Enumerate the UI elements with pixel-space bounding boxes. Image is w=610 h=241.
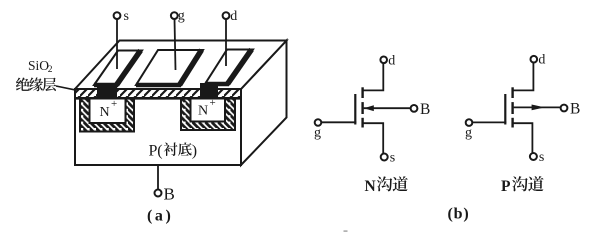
N+ region 2 (drain well, hatched border) bbox=[181, 99, 235, 131]
transistor P-channel MOSFET: channel bar (source segment) bbox=[511, 118, 513, 128]
svg-text:s: s bbox=[124, 9, 129, 24]
svg-text:d: d bbox=[538, 53, 545, 68]
svg-text:B: B bbox=[164, 185, 175, 204]
terminal g bbox=[171, 12, 178, 19]
transistor P-channel MOSFET: gate bar bbox=[504, 94, 506, 125]
svg-text:P: P bbox=[501, 178, 511, 195]
svg-text:N: N bbox=[100, 105, 110, 120]
transistor P-channel MOSFET: drain terminal circle bbox=[531, 56, 538, 63]
wire d stem bbox=[225, 19, 227, 66]
transistor N-channel MOSFET: body wire bbox=[364, 107, 411, 109]
substrate box front face bbox=[75, 89, 241, 165]
transistor N-channel MOSFET: gate terminal circle bbox=[315, 119, 322, 126]
transistor N-channel MOSFET: channel bar (drain segment) bbox=[361, 87, 363, 98]
terminal d bbox=[223, 12, 230, 19]
svg-text:(b): (b) bbox=[448, 206, 470, 223]
N+ region 1 (source well, hatched border) bbox=[80, 99, 134, 132]
transistor N-channel MOSFET: gate wire bbox=[321, 121, 356, 123]
faint scan speck bbox=[344, 230, 348, 232]
svg-text:(: ( bbox=[157, 142, 162, 159]
via under d electrode bbox=[200, 83, 218, 99]
label 绝缘层 (insulating layer) bbox=[16, 77, 30, 90]
svg-text:+: + bbox=[111, 98, 117, 110]
svg-text:(a): (a) bbox=[147, 208, 173, 225]
terminal B (substrate) bbox=[155, 190, 162, 197]
transistor P-channel MOSFET: drain wire bbox=[513, 63, 534, 91]
svg-text:P: P bbox=[149, 142, 158, 159]
transistor N-channel MOSFET: drain terminal circle bbox=[380, 57, 387, 64]
transistor N-channel MOSFET: body terminal circle B bbox=[411, 105, 418, 112]
transistor P-channel MOSFET: channel bar (drain segment) bbox=[511, 87, 513, 98]
svg-text:g: g bbox=[178, 9, 185, 24]
transistor N-channel MOSFET: gate bar bbox=[354, 94, 356, 125]
wire B stem (substrate contact) bbox=[157, 165, 159, 190]
transistor N-channel MOSFET: source terminal circle bbox=[381, 154, 388, 161]
svg-text:B: B bbox=[570, 101, 580, 118]
transistor P-channel MOSFET: source terminal circle bbox=[530, 153, 537, 160]
via under s electrode bbox=[97, 84, 117, 99]
transistor N-channel MOSFET: body arrow (pointing in, N-channel) bbox=[364, 105, 374, 111]
wire s stem bbox=[116, 19, 118, 69]
svg-text:2: 2 bbox=[48, 65, 53, 75]
svg-text:s: s bbox=[390, 151, 395, 166]
svg-text:N: N bbox=[198, 104, 208, 119]
transistor N-channel MOSFET: channel bar (body segment) bbox=[361, 102, 363, 114]
svg-text:N: N bbox=[365, 178, 376, 195]
transistor P-channel MOSFET: body terminal circle B bbox=[561, 105, 568, 112]
transistor N-channel MOSFET: source wire bbox=[363, 123, 384, 153]
svg-text:SiO: SiO bbox=[28, 58, 49, 73]
substrate box right face bbox=[241, 41, 287, 166]
svg-text:d: d bbox=[230, 9, 237, 24]
metal electrode d (top plate) bbox=[205, 50, 253, 85]
svg-text:g: g bbox=[314, 126, 321, 141]
svg-text:s: s bbox=[539, 150, 544, 165]
transistor N-channel MOSFET: drain wire bbox=[363, 63, 384, 90]
transistor P-channel MOSFET: gate wire bbox=[472, 121, 506, 123]
svg-text:): ) bbox=[192, 142, 197, 159]
wire g stem bbox=[175, 19, 176, 70]
transistor P-channel MOSFET: body arrow (pointing out, P-channel) bbox=[532, 105, 545, 111]
svg-text:B: B bbox=[420, 101, 430, 118]
transistor P-channel MOSFET: body wire bbox=[514, 106, 561, 108]
svg-text:+: + bbox=[210, 97, 216, 109]
metal electrode s (top plate) bbox=[94, 51, 142, 86]
transistor P-channel MOSFET: source wire bbox=[513, 123, 533, 153]
oxide layer SiO2 strip (hatched) bbox=[76, 90, 240, 98]
metal electrode g (gate plate) bbox=[136, 50, 203, 85]
transistor N-channel MOSFET: channel bar (source segment) bbox=[361, 118, 363, 128]
terminal s bbox=[114, 12, 121, 19]
transistor P-channel MOSFET: gate terminal circle bbox=[466, 119, 473, 126]
svg-text:g: g bbox=[465, 126, 472, 141]
transistor P-channel MOSFET: channel bar (body segment) bbox=[511, 102, 513, 114]
substrate box top face bbox=[75, 41, 287, 90]
leader line to oxide layer bbox=[56, 86, 75, 90]
svg-text:d: d bbox=[388, 53, 395, 68]
